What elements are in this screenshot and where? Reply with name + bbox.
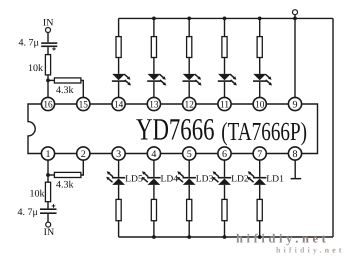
capacitor C2 4.7u bottom [40, 204, 57, 214]
resistor bottom col2 [151, 199, 156, 220]
svg-text:4. 7μ: 4. 7μ [19, 37, 39, 48]
LED LD2 [212, 171, 231, 185]
wire rail to resistor col3 [188, 18, 190, 36]
svg-text:10: 10 [255, 99, 264, 110]
resistor 4.3k bottom [54, 172, 81, 177]
pin 16 [41, 97, 54, 110]
resistor top col2 [151, 37, 156, 58]
junction top rail col5 [258, 17, 262, 21]
svg-text:10k: 10k [30, 188, 45, 199]
pin 8 [288, 147, 301, 160]
svg-text:LD5: LD5 [125, 175, 143, 185]
resistor bottom col3 [187, 199, 192, 220]
wire 4.3k to pin 15 [81, 80, 83, 97]
capacitor C1 4.7u top [41, 42, 57, 50]
pin 11 [218, 97, 231, 110]
wire cap to 10k top [47, 47, 49, 55]
junction bottom rail col5 [258, 235, 262, 239]
svg-text:IN: IN [43, 17, 54, 28]
wire resistor to LED col5 [259, 58, 261, 74]
svg-text:14: 14 [114, 99, 123, 110]
wire resistor to LED col4 [224, 58, 226, 74]
svg-text:16: 16 [43, 99, 52, 110]
pin 9 [288, 97, 301, 110]
LED top col1 [112, 74, 131, 86]
resistor 4.3k top [54, 78, 81, 83]
wire pin1 down [47, 160, 49, 182]
pin 14 [112, 97, 125, 110]
wire pin to LED LD1 [259, 160, 261, 177]
svg-text:hifidiy.net: hifidiy.net [276, 246, 345, 255]
wire IN to cap top [47, 33, 49, 43]
svg-text:8: 8 [293, 149, 298, 160]
pin 10 [253, 97, 266, 110]
wire resistor to LED col1 [118, 58, 120, 74]
pin 1 [41, 147, 54, 160]
svg-text:11: 11 [220, 99, 229, 110]
resistor top col5 [257, 37, 262, 58]
junction bottom rail col2 [152, 235, 156, 239]
svg-text:5: 5 [187, 149, 192, 160]
wire rail to resistor col1 [118, 18, 120, 36]
resistor bottom col1 [116, 199, 121, 220]
wire LED to pin col5 [259, 82, 261, 98]
junction top rail col4 [223, 17, 227, 21]
LED top col5 [253, 74, 272, 86]
svg-text:9: 9 [293, 99, 298, 110]
wire LED to resistor col2 [153, 185, 155, 200]
wire LED to pin col2 [153, 82, 155, 98]
wire pin to LED LD4 [153, 160, 155, 177]
junction at pin9 rail [293, 17, 297, 21]
svg-text:(TA7666P): (TA7666P) [221, 117, 307, 146]
resistor bottom col4 [222, 199, 227, 220]
svg-text:13: 13 [149, 99, 158, 110]
svg-text:15: 15 [79, 99, 88, 110]
pin 13 [147, 97, 160, 110]
resistor 10k top [45, 55, 50, 75]
pin 4 [147, 147, 160, 160]
wire LED to pin col1 [118, 82, 120, 98]
pin 6 [218, 147, 231, 160]
wire cap to IN bottom [47, 214, 49, 222]
wire 10k to pin 16 [47, 75, 49, 98]
wire pin 8 to ground [294, 160, 296, 178]
LED LD3 [177, 171, 196, 185]
ground [291, 178, 302, 180]
wire LED to resistor col4 [224, 185, 226, 200]
svg-text:hifidiy.net: hifidiy.net [236, 231, 329, 245]
wire pin to LED LD3 [188, 160, 190, 177]
svg-text:YD7666: YD7666 [136, 112, 215, 147]
wire 10k to cap bottom [47, 202, 49, 209]
wire VCC top rail [119, 17, 333, 19]
svg-text:LD3: LD3 [196, 175, 214, 185]
junction bottom rail col4 [223, 235, 227, 239]
terminal VCC [293, 10, 298, 15]
LED top col2 [147, 74, 166, 86]
wire junction to 4.3k bottom [48, 174, 54, 176]
wire VCC right rail [332, 18, 334, 237]
junction top rail col3 [187, 17, 191, 21]
svg-text:12: 12 [185, 99, 194, 110]
LED LD4 [142, 171, 161, 185]
resistor top col1 [116, 37, 121, 58]
wire resistor to rail col1 [118, 221, 120, 237]
op-amp U1 YD7666 body [28, 104, 318, 154]
svg-text:LD4: LD4 [161, 175, 179, 185]
wire resistor to rail col5 [259, 221, 261, 237]
wire LED to resistor col1 [118, 185, 120, 200]
wire 4.3k to pin 2 [81, 160, 83, 175]
wire LED to resistor col5 [259, 185, 261, 200]
wire resistor to rail col3 [188, 221, 190, 237]
wire rail to resistor col5 [259, 18, 261, 36]
wire LED to resistor col3 [188, 185, 190, 200]
svg-text:2: 2 [81, 149, 86, 160]
pin 3 [112, 147, 125, 160]
svg-text:4.3k: 4.3k [56, 85, 74, 96]
svg-text:4. 7μ: 4. 7μ [18, 207, 38, 218]
wire pin to LED LD2 [224, 160, 226, 177]
junction node top [46, 79, 50, 83]
terminal IN top [46, 28, 51, 33]
wire rail to resistor col2 [153, 18, 155, 36]
wire resistor to rail col4 [224, 221, 226, 237]
pin 5 [183, 147, 196, 160]
terminal IN bottom [46, 222, 51, 227]
resistor top col3 [187, 37, 192, 58]
pin 7 [253, 147, 266, 160]
wire resistor to LED col3 [188, 58, 190, 74]
wire junction to 4.3k top [48, 79, 54, 81]
pin 12 [183, 97, 196, 110]
svg-text:1: 1 [46, 149, 51, 160]
svg-text:10k: 10k [28, 63, 43, 74]
wire rail to pin 9 [294, 18, 296, 97]
junction bottom rail col3 [187, 235, 191, 239]
LED LD1 [247, 171, 266, 185]
LED top col4 [218, 74, 237, 86]
junction top rail col2 [152, 17, 156, 21]
svg-text:4.3k: 4.3k [56, 180, 74, 191]
wire LED to pin col4 [224, 82, 226, 98]
svg-text:4: 4 [151, 149, 156, 160]
svg-text:3: 3 [116, 149, 121, 160]
wire LED to pin col3 [188, 82, 190, 98]
wire resistor to rail col2 [153, 221, 155, 237]
svg-text:7: 7 [257, 149, 262, 160]
resistor bottom col5 [257, 199, 262, 220]
wire resistor to LED col2 [153, 58, 155, 74]
wire pin to LED LD5 [118, 160, 120, 177]
svg-text:IN: IN [44, 227, 55, 238]
svg-text:LD1: LD1 [266, 175, 284, 185]
junction node bottom [46, 173, 50, 177]
svg-text:LD2: LD2 [231, 175, 249, 185]
svg-text:6: 6 [222, 149, 227, 160]
resistor top col4 [222, 37, 227, 58]
pin 2 [77, 147, 90, 160]
resistor 10k bottom [45, 182, 50, 202]
LED LD5 [106, 171, 125, 185]
wire VCC bottom rail [119, 236, 333, 238]
pin 15 [77, 97, 90, 110]
wire terminal to rail [294, 15, 296, 19]
LED top col3 [183, 74, 202, 86]
wire rail to resistor col4 [224, 18, 226, 36]
